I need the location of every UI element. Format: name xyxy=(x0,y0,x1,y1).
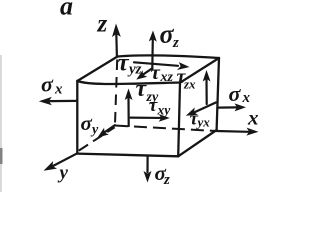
svg-text:xz: xz xyxy=(160,70,174,85)
svg-text:x: x xyxy=(247,106,259,130)
svg-text:zx: zx xyxy=(183,77,196,92)
svg-text:z: z xyxy=(97,11,108,38)
svg-text:x: x xyxy=(54,82,63,98)
svg-text:σ: σ xyxy=(41,72,54,97)
svg-text:z: z xyxy=(163,172,170,188)
svg-text:τ: τ xyxy=(118,50,130,77)
svg-text:τ: τ xyxy=(149,95,158,116)
svg-text:z: z xyxy=(172,35,179,51)
svg-text:a: a xyxy=(60,0,73,21)
svg-text:τ: τ xyxy=(151,60,161,84)
svg-text:y: y xyxy=(58,163,69,184)
svg-text:yx: yx xyxy=(196,115,211,130)
svg-text:σ: σ xyxy=(81,111,93,135)
svg-text:y: y xyxy=(90,123,99,138)
svg-text:xy: xy xyxy=(157,103,172,118)
svg-text:σ: σ xyxy=(229,81,242,106)
svg-text:x: x xyxy=(242,90,251,106)
